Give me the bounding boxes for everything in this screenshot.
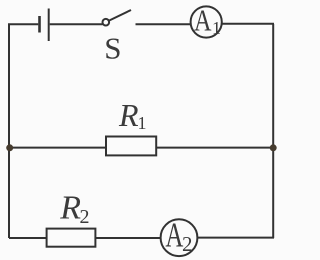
- svg-text:2: 2: [182, 232, 193, 256]
- switch S: [103, 10, 132, 26]
- node right junction: [270, 144, 277, 151]
- wire R2 to ammeter A2: [95, 237, 160, 239]
- resistor R1 box: [106, 137, 156, 156]
- ammeter A2 circle: [161, 219, 198, 256]
- svg-text:2: 2: [80, 206, 90, 228]
- wire middle left segment: [9, 147, 106, 149]
- svg-text:A: A: [194, 3, 212, 38]
- wire top left segment: [8, 23, 38, 25]
- wire bottom left segment: [9, 237, 47, 239]
- node left junction: [6, 144, 13, 151]
- resistor R2 box: [47, 229, 96, 247]
- wire switch to ammeter A1: [136, 23, 191, 25]
- wire right rail: [272, 24, 274, 238]
- svg-text:R: R: [59, 190, 81, 227]
- svg-text:1: 1: [212, 18, 221, 38]
- wire R1 to right rail: [156, 147, 273, 149]
- svg-text:S: S: [104, 31, 121, 66]
- wire left rail: [8, 24, 10, 238]
- wire battery to switch: [50, 23, 103, 25]
- ammeter A1 circle: [191, 6, 222, 37]
- svg-text:1: 1: [138, 113, 147, 133]
- wire A2 to right rail: [197, 237, 274, 239]
- wire A1 to right corner: [222, 23, 274, 25]
- battery cell: [40, 9, 49, 42]
- svg-text:A: A: [165, 217, 183, 255]
- svg-text:R: R: [118, 97, 139, 133]
